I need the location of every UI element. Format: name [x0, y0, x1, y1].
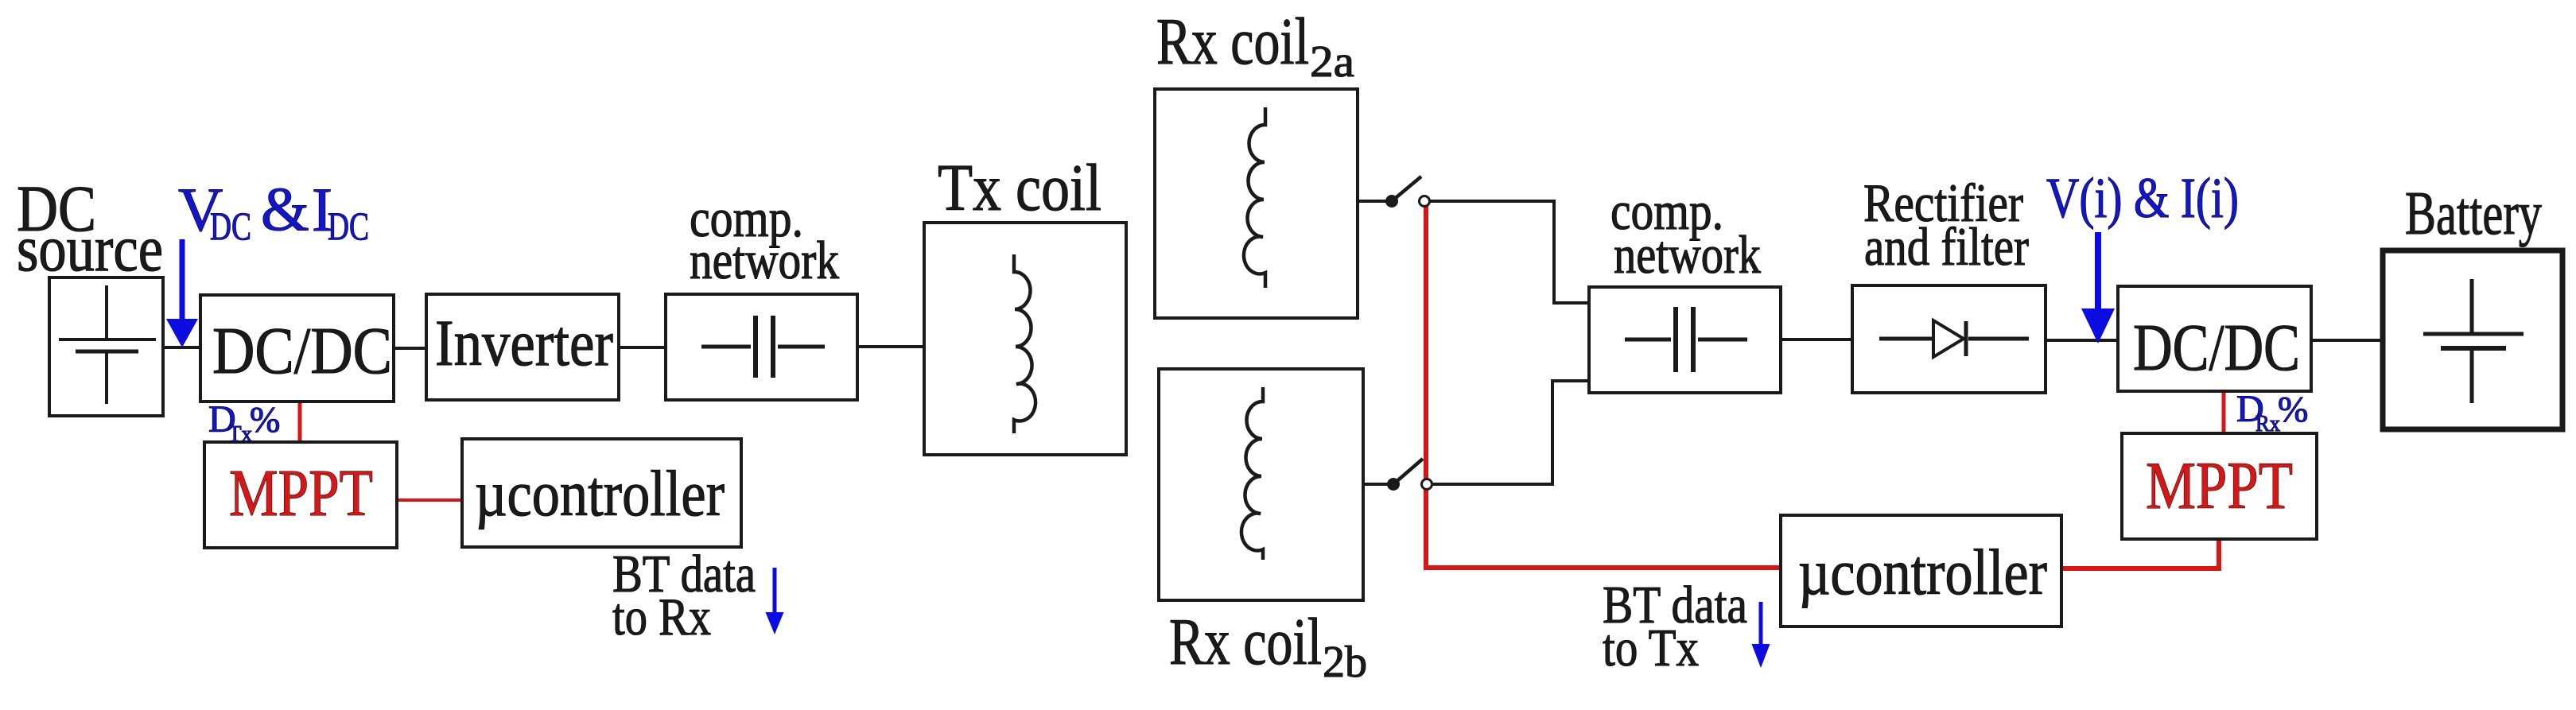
red wire DC/DC Tx duty to MPPT	[298, 400, 302, 444]
label MPPT (Rx)	[2146, 448, 2293, 523]
red wire switch node to ucontroller (Rx)	[1426, 205, 1781, 568]
Tx coil inductor symbol	[1014, 254, 1035, 433]
comp network 2 block	[1589, 287, 1781, 393]
diode symbol D1 in rectifier	[1879, 320, 2029, 357]
svg-text:2a: 2a	[1310, 37, 1354, 87]
wire Rx coil 2b to switch S2	[1360, 483, 1390, 486]
Rx coil 2a block	[1155, 89, 1358, 318]
blue arrow BT data to Tx	[1752, 602, 1770, 668]
Inverter block	[426, 294, 619, 400]
label V(i) I(i)	[2046, 166, 2239, 230]
label comp network 2 line 2	[1614, 224, 1761, 285]
svg-text:Tx coil: Tx coil	[938, 151, 1102, 225]
label MPPT (Tx)	[229, 456, 373, 530]
label DC/DC (Tx)	[212, 314, 392, 388]
comp network 1 block	[666, 294, 857, 400]
svg-text:DC: DC	[328, 204, 369, 248]
label BT data to Tx line 2	[1603, 619, 1699, 677]
label DTx duty D	[208, 398, 236, 440]
svg-text:DC/DC: DC/DC	[212, 314, 392, 388]
DC source battery symbol	[59, 285, 156, 404]
label DRx duty subscript Rx	[2255, 411, 2280, 436]
svg-text:Tx: Tx	[228, 421, 252, 447]
label comp network 1 line 1	[690, 188, 803, 248]
svg-text:&: &	[261, 174, 309, 243]
label DTx duty percent	[250, 399, 280, 440]
label ucontroller (Tx)	[475, 457, 725, 530]
svg-text:2b: 2b	[1323, 638, 1367, 687]
svg-text:µcontroller: µcontroller	[1798, 536, 2047, 608]
svg-text:µcontroller: µcontroller	[475, 457, 725, 530]
label Rx coil 2b subscript	[1323, 638, 1367, 687]
ucontroller block (Rx)	[1781, 515, 2061, 627]
label Idc subscript DC	[328, 204, 369, 248]
DC/DC converter (Tx)	[200, 295, 394, 402]
MPPT block (Tx)	[204, 442, 397, 548]
rectifier and filter block	[1852, 285, 2046, 393]
blue arrow BT data to Rx	[766, 568, 784, 634]
svg-text:MPPT: MPPT	[2146, 448, 2293, 523]
label BT data to Rx line 1	[612, 545, 756, 603]
label comp network 1 line 2	[690, 230, 839, 290]
wire switch S2 to comp network 2 lower input	[1432, 381, 1589, 484]
wire DC/DC to Inverter	[390, 347, 429, 350]
Tx coil block	[924, 223, 1126, 455]
battery block	[2383, 250, 2562, 429]
label comp network 2 line 1	[1610, 180, 1723, 241]
svg-text:Inverter: Inverter	[435, 306, 613, 379]
red wire DC/DC Rx duty to MPPT (Rx)	[2222, 390, 2226, 435]
svg-text:source: source	[17, 211, 163, 285]
wire DC/DC (Rx) to battery	[2308, 339, 2385, 342]
label DC source line 1	[17, 172, 96, 245]
red wire MPPT to ucontroller (Tx)	[395, 499, 464, 502]
label Idc	[312, 175, 332, 244]
label DC/DC (Rx)	[2133, 311, 2300, 385]
label Tx coil	[938, 151, 1102, 225]
svg-text:DC/DC: DC/DC	[2133, 311, 2300, 385]
label Rx coil 2a	[1156, 5, 1309, 79]
svg-text:%: %	[250, 399, 280, 440]
label ampersand 1	[261, 174, 309, 243]
ucontroller block (Tx)	[462, 439, 741, 547]
DC source block	[49, 277, 163, 416]
label Vdc	[178, 175, 223, 244]
svg-text:network: network	[690, 230, 839, 290]
label DRx duty D	[2236, 388, 2264, 430]
label DTx duty subscript Tx	[228, 421, 252, 447]
svg-text:Rx: Rx	[2255, 411, 2280, 436]
label Vdc subscript DC	[210, 204, 251, 248]
blue arrow V(i) I(i) sense	[2081, 232, 2115, 343]
switch S1 (Rx coil 2a)	[1385, 177, 1430, 208]
wire rectifier to DC/DC (Rx)	[2042, 339, 2121, 342]
label Battery	[2405, 179, 2542, 247]
svg-text:Battery: Battery	[2405, 179, 2542, 247]
wire comp network 1 to Tx coil	[854, 345, 927, 348]
label Rx coil 2a subscript	[1310, 37, 1354, 87]
label DC source line 2	[17, 211, 163, 285]
blue arrow Vdc Idc sense	[166, 239, 198, 347]
MPPT block (Rx)	[2122, 433, 2317, 539]
label rectifier line 2	[1864, 216, 2029, 277]
label rectifier line 1	[1863, 173, 2023, 233]
svg-text:V(i) & I(i): V(i) & I(i)	[2046, 166, 2239, 230]
red wire ucontroller (Rx) to MPPT (Rx)	[2060, 541, 2219, 568]
label DRx duty percent	[2278, 389, 2308, 429]
svg-text:Rx coil: Rx coil	[1169, 605, 1322, 679]
svg-text:Rx coil: Rx coil	[1156, 5, 1309, 79]
DC/DC converter (Rx)	[2118, 286, 2311, 391]
label Rx coil 2b	[1169, 605, 1322, 679]
Rx coil 2b block	[1159, 369, 1363, 600]
svg-text:DC: DC	[210, 204, 251, 248]
svg-text:network: network	[1614, 224, 1761, 285]
svg-text:and filter: and filter	[1864, 216, 2029, 277]
capacitor symbol C1 in comp network 1	[701, 316, 825, 378]
switch S2 (Rx coil 2b)	[1387, 459, 1432, 491]
Rx coil 2b inductor symbol	[1241, 387, 1263, 560]
wire switch S1 to comp network 2 upper input	[1430, 201, 1589, 303]
Rx coil 2a inductor symbol	[1244, 107, 1265, 288]
svg-text:to Rx: to Rx	[612, 588, 711, 646]
label BT data to Tx line 1	[1603, 576, 1747, 634]
wire Rx coil 2a to switch S1	[1354, 200, 1389, 203]
svg-text:MPPT: MPPT	[229, 456, 373, 530]
label BT data to Rx line 2	[612, 588, 711, 646]
label ucontroller (Rx)	[1798, 536, 2047, 608]
svg-text:%: %	[2278, 389, 2308, 429]
wire comp network 2 to rectifier	[1778, 338, 1855, 341]
battery cell symbol in battery block	[2423, 279, 2524, 403]
svg-text:to Tx: to Tx	[1603, 619, 1699, 677]
wire DC source to DC/DC	[159, 346, 204, 349]
label Inverter	[435, 306, 613, 379]
capacitor symbol C2 in comp network 2	[1625, 307, 1747, 372]
wire Inverter to comp network 1	[616, 346, 669, 349]
